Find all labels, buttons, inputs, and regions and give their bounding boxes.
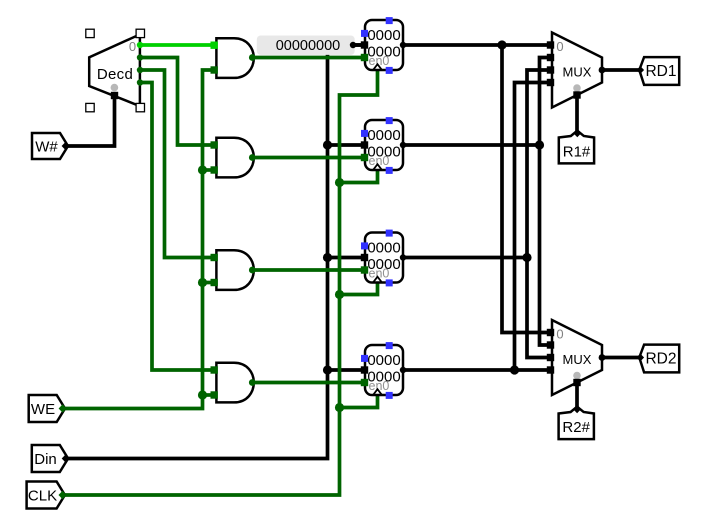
- wire bus v4 reg2 to MUX1 in1 and MUX2 in1: [540, 58, 553, 346]
- wire WE bus: [62, 70, 217, 409]
- AND gate G4: [216, 363, 255, 403]
- svg-text:0000: 0000: [367, 240, 400, 257]
- decoder selection handles: [86, 29, 145, 112]
- junction v3-reg3out: [522, 253, 531, 262]
- svg-text:00000000: 00000000: [276, 38, 341, 54]
- node MUX1 in0 endpoint: [547, 41, 554, 48]
- node reg2 en endpoint: [361, 154, 368, 161]
- wire reg3 output: [403, 256, 527, 260]
- wire bus v1 reg1 to MUX2 in0: [502, 45, 552, 333]
- junction Din-reg4: [323, 365, 332, 374]
- junction CLK-reg4: [335, 403, 344, 412]
- junction v4-reg2out: [535, 140, 544, 149]
- junction WE-gate3: [198, 278, 207, 287]
- register REG0 port markers: [361, 17, 393, 74]
- decoder out0 port dot: [137, 42, 143, 48]
- register REG2: [365, 233, 406, 283]
- probe P1 value 00000000: [257, 36, 365, 55]
- wire decoder out3 to gate4: [140, 83, 217, 371]
- node reg4 D endpoint: [361, 366, 368, 373]
- input pin CLK: [27, 482, 67, 509]
- register REG2 port markers: [361, 230, 393, 287]
- wire gate4 output to reg4 enable: [252, 381, 365, 385]
- svg-text:MUX: MUX: [563, 65, 592, 80]
- node MUX1 select endpoint: [573, 91, 580, 98]
- node reg4 en endpoint: [361, 379, 368, 386]
- node gate4 inA endpoint: [211, 366, 218, 373]
- junction Din-reg2: [323, 140, 332, 149]
- AND gate G1: [216, 38, 255, 78]
- wire Din bus: [64, 45, 365, 459]
- node gate4 inB endpoint: [211, 391, 218, 398]
- node MUX2 in3 endpoint: [547, 366, 554, 373]
- node gate2 inB endpoint: [211, 166, 218, 173]
- node reg3 D endpoint: [361, 254, 368, 261]
- node MUX1 in1 endpoint: [547, 54, 554, 61]
- wire reg4 output to MUX2 in3: [403, 368, 552, 372]
- wire reg1 output to MUX1 in0: [403, 43, 552, 47]
- input pin R2#: [559, 405, 594, 439]
- svg-text:0: 0: [556, 39, 563, 54]
- input pin WE: [29, 395, 67, 422]
- junction WE-gate2: [198, 165, 207, 174]
- wire W# to decoder select: [65, 96, 115, 147]
- node MUX2 in2 endpoint: [547, 354, 554, 361]
- junction Din-reg3: [323, 253, 332, 262]
- output pin RD2: [637, 345, 680, 373]
- decoder out2 port dot: [137, 67, 143, 73]
- register REG3: [365, 345, 406, 395]
- node MUX2 select endpoint: [573, 379, 580, 386]
- MUX U6: [552, 33, 605, 108]
- register REG1: [365, 120, 406, 170]
- wire CLK bus: [61, 70, 378, 495]
- svg-text:R2#: R2#: [562, 419, 590, 436]
- input pin Din: [32, 445, 70, 472]
- wire gate2 output to reg2 enable: [252, 156, 365, 160]
- svg-text:Din: Din: [34, 451, 57, 468]
- AND gate G3: [216, 250, 255, 290]
- svg-text:RD1: RD1: [645, 63, 676, 80]
- junction WE-gate4: [198, 390, 207, 399]
- svg-text:R1#: R1#: [563, 144, 591, 161]
- svg-text:0000: 0000: [367, 352, 400, 369]
- svg-text:Decd: Decd: [97, 66, 133, 83]
- wire MUX2 select to R2#: [575, 383, 579, 408]
- node MUX1 in2 endpoint: [547, 66, 554, 73]
- svg-text:WE: WE: [31, 401, 55, 418]
- decoder select endpoint: [111, 92, 118, 99]
- node reg1 D endpoint: [361, 41, 368, 48]
- node reg2 D endpoint: [361, 141, 368, 148]
- junction v1-reg1out: [497, 40, 506, 49]
- register REG1 port markers: [361, 117, 393, 174]
- wire reg2 output: [403, 143, 540, 147]
- svg-text:0000: 0000: [367, 127, 400, 144]
- node reg3 en endpoint: [361, 266, 368, 273]
- wire bus v2 reg4 to MUX1 in3: [515, 83, 553, 371]
- wire MUX1 output to RD1: [602, 68, 640, 72]
- svg-text:0000: 0000: [367, 27, 400, 44]
- wire bus v3 reg3 to MUX1 in2 and MUX2 in2: [527, 70, 552, 358]
- wire gate3 output to reg3 enable: [252, 268, 365, 272]
- junction CLK-reg2: [335, 178, 344, 187]
- node MUX2 in0 endpoint: [547, 329, 554, 336]
- node MUX2 in1 endpoint: [547, 341, 554, 348]
- svg-text:W#: W#: [35, 139, 58, 156]
- junction CLK-reg3: [335, 290, 344, 299]
- decoder out1 port dot: [137, 54, 143, 60]
- wire decoder out1 to gate2: [140, 58, 217, 146]
- node gate3 inB endpoint: [211, 279, 218, 286]
- wire MUX2 output to RD2: [602, 356, 640, 360]
- junction v2-reg4out: [510, 365, 519, 374]
- MUX U7: [552, 320, 605, 395]
- svg-text:CLK: CLK: [28, 488, 57, 505]
- svg-text:RD2: RD2: [645, 351, 676, 368]
- input pin W#: [32, 133, 70, 159]
- svg-text:0: 0: [129, 39, 136, 54]
- output pin RD1: [637, 57, 680, 85]
- register REG3 port markers: [361, 342, 393, 399]
- wire gate1 output to reg1 enable: [252, 56, 365, 60]
- node decoder out0 endpoint at gate1: [211, 42, 218, 49]
- decoder out3 port dot: [137, 79, 143, 85]
- wire MUX1 select to R1#: [575, 95, 579, 131]
- node MUX1 in3 endpoint: [547, 79, 554, 86]
- node gate2 inA endpoint: [211, 141, 218, 148]
- register REG0: [365, 20, 406, 70]
- input pin R1#: [559, 129, 594, 164]
- wire decoder out0 to gate1 (value 1, bright green): [140, 43, 217, 47]
- node gate1 inB endpoint: [211, 66, 218, 73]
- AND gate G2: [216, 138, 255, 178]
- svg-text:MUX: MUX: [563, 352, 592, 367]
- wire decoder out2 to gate3: [140, 70, 217, 258]
- svg-text:0: 0: [556, 327, 563, 342]
- node gate3 inA endpoint: [211, 254, 218, 261]
- node reg1 en endpoint: [361, 54, 368, 61]
- decoder U1 Decd: [89, 34, 140, 106]
